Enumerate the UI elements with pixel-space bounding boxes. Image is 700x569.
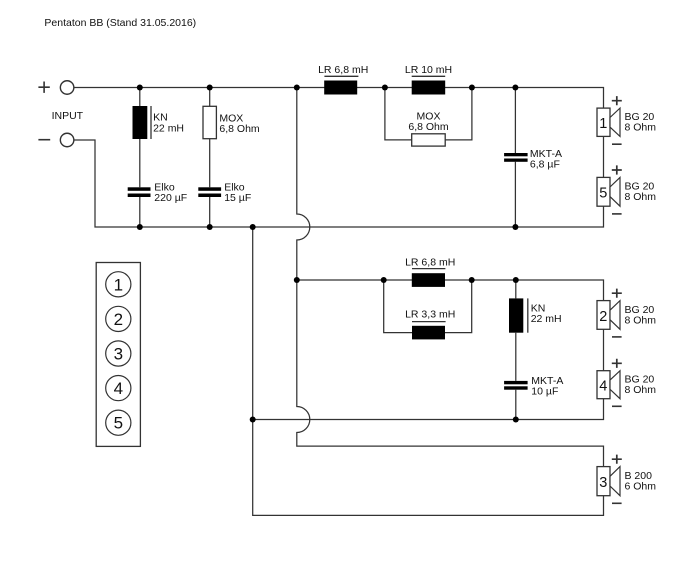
junction dots midrange negative rail y=419.5	[250, 417, 519, 423]
svg-text:LR 10 mH: LR 10 mH	[405, 64, 452, 76]
terminal legend box	[96, 263, 140, 447]
svg-text:8 Ohm: 8 Ohm	[625, 314, 657, 326]
terminal 5	[106, 410, 131, 435]
svg-text:8 Ohm: 8 Ohm	[625, 384, 657, 396]
wire: midrange positive rail y=280 to speaker 2	[297, 280, 604, 301]
capacitor MKT-A 6,8 µF	[504, 88, 562, 228]
svg-text:4: 4	[114, 379, 123, 398]
wire: top positive rail to speaker 1	[74, 88, 604, 109]
wire: vertical feed x=297 with hops, to speaker 3 plus	[297, 88, 604, 467]
inductor KN 22 mH (midrange shunt)	[509, 280, 562, 381]
svg-text:6,8 Ohm: 6,8 Ohm	[408, 121, 449, 133]
svg-text:8 Ohm: 8 Ohm	[625, 122, 657, 134]
resistor MOX 6,8 Ohm (input shunt)	[203, 88, 260, 188]
svg-text:6,8 µF: 6,8 µF	[530, 158, 560, 170]
svg-text:2: 2	[599, 309, 607, 325]
inductor LR 6,8 mH (midrange series)	[405, 256, 455, 287]
svg-text:4: 4	[599, 379, 607, 395]
junction dots top rail	[137, 85, 519, 91]
svg-text:3: 3	[599, 475, 607, 491]
junction dots midrange rail y=280	[294, 277, 519, 283]
svg-text:220 µF: 220 µF	[154, 192, 187, 204]
svg-text:LR 3,3 mH: LR 3,3 mH	[405, 309, 455, 321]
inductor LR 3,3 mH (parallel branch)	[405, 309, 455, 340]
svg-text:15 µF: 15 µF	[224, 192, 251, 204]
terminal 1	[106, 272, 131, 297]
speaker 1 BG 20	[597, 96, 656, 144]
wire: speaker 2 to speaker 4	[603, 329, 605, 370]
speaker 5 BG 20	[597, 165, 656, 214]
svg-text:Pentaton BB (Stand 31.05.2016): Pentaton BB (Stand 31.05.2016)	[44, 17, 196, 29]
wire: parallel branch for LR 3,3 mH	[384, 280, 472, 333]
title	[44, 17, 196, 29]
inductor KN 22 mH (input shunt)	[133, 88, 185, 188]
wire: left negative drop x=253 and bottom rail to speaker 3 minus	[253, 227, 604, 515]
input plus symbol	[38, 82, 49, 93]
input plus terminal	[60, 81, 74, 95]
svg-text:10 µF: 10 µF	[531, 385, 558, 397]
input minus symbol	[38, 139, 50, 141]
wire: speaker 1 to speaker 5	[603, 136, 605, 177]
inductor LR 10 mH (top series)	[405, 64, 452, 95]
svg-text:22 mH: 22 mH	[153, 123, 184, 135]
input minus terminal	[60, 133, 74, 147]
wire: negative rail from input minus along y=227 to speaker 5 minus	[74, 140, 604, 227]
terminal 2	[106, 306, 131, 331]
junction dots negative rail y=227	[137, 224, 519, 230]
svg-text:6 Ohm: 6 Ohm	[625, 481, 657, 493]
svg-text:5: 5	[114, 414, 123, 433]
svg-text:5: 5	[599, 186, 607, 202]
capacitor Elko 15 µF	[198, 182, 251, 227]
svg-text:1: 1	[599, 116, 607, 132]
svg-text:LR 6,8 mH: LR 6,8 mH	[318, 64, 368, 76]
inductor LR 6,8 mH (top series)	[318, 64, 368, 95]
speaker 2 BG 20	[597, 289, 656, 337]
terminal 4	[106, 376, 131, 401]
speaker 4 BG 20	[597, 359, 656, 407]
svg-text:1: 1	[114, 275, 123, 294]
INPUT label	[52, 110, 84, 122]
svg-text:6,8 Ohm: 6,8 Ohm	[219, 123, 260, 135]
wire: midrange negative rail y=419.5	[253, 399, 604, 420]
svg-text:22 mH: 22 mH	[531, 313, 562, 325]
svg-text:INPUT: INPUT	[52, 110, 84, 122]
speaker 3 B 200	[597, 455, 656, 504]
svg-text:8 Ohm: 8 Ohm	[625, 191, 657, 203]
svg-text:LR 6,8 mH: LR 6,8 mH	[405, 256, 455, 268]
svg-text:2: 2	[114, 310, 123, 329]
resistor MOX 6,8 Ohm (parallel with LR 10 mH)	[385, 88, 472, 147]
capacitor Elko 220 µF	[128, 182, 188, 227]
capacitor MKT-A 10 µF	[504, 375, 563, 420]
terminal 3	[106, 341, 131, 366]
svg-text:3: 3	[114, 345, 123, 364]
